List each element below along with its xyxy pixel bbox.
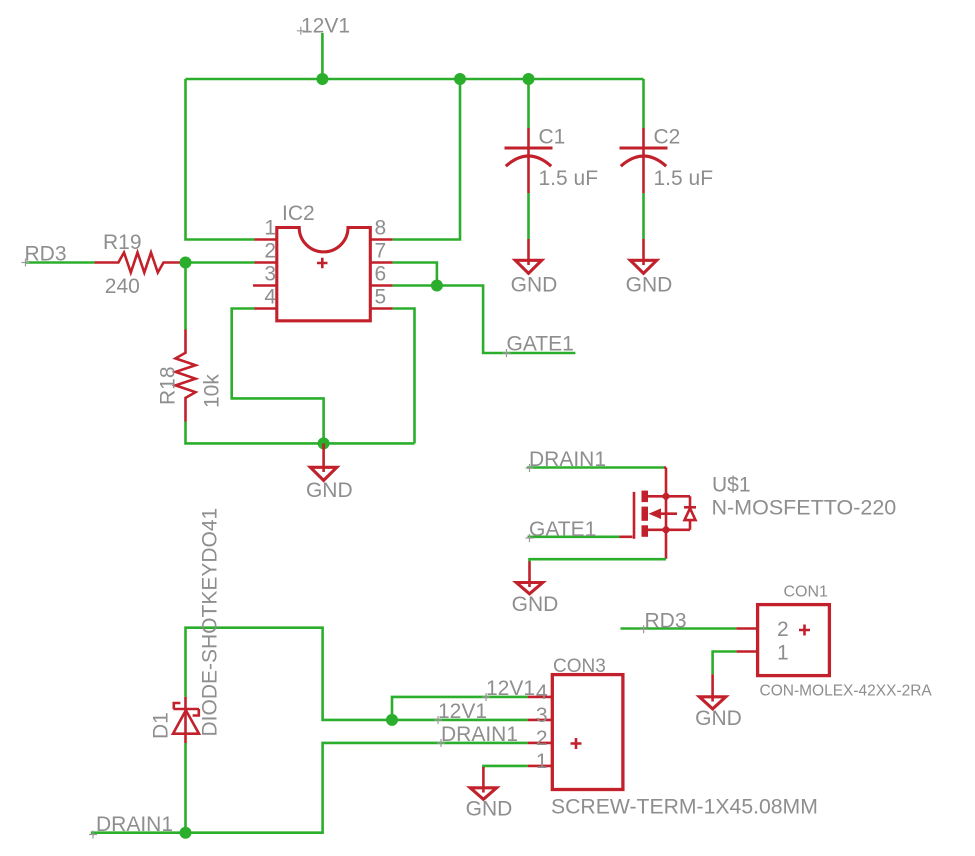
wire pin5 drop bbox=[393, 309, 415, 444]
resistor R19 bbox=[95, 253, 186, 273]
connector CON3 body bbox=[552, 675, 623, 790]
wire DRAIN1 to mosfet drain bbox=[527, 466, 664, 469]
IC2 pin 7 bbox=[370, 261, 392, 264]
wire pin7 down bbox=[393, 263, 437, 286]
body lead with arrow bbox=[658, 512, 677, 515]
wire bus to C1 bbox=[527, 79, 530, 128]
connector CON1 body bbox=[758, 605, 830, 676]
junction C1 at bus bbox=[523, 73, 535, 85]
svg-text:U$1: U$1 bbox=[712, 474, 751, 497]
op-amp IC2 body bbox=[277, 228, 371, 321]
svg-text:IC2: IC2 bbox=[282, 202, 315, 225]
channel bar body bbox=[642, 507, 649, 521]
wire bus to C2 bbox=[642, 79, 645, 128]
CON3 pin 3 bbox=[528, 719, 553, 722]
svg-text:DIODE-SHOTKEYDO41: DIODE-SHOTKEYDO41 bbox=[199, 508, 222, 737]
IC2 pin 3 bbox=[253, 284, 277, 287]
center vertical bbox=[665, 496, 668, 530]
wire D1 cathode to 12V1 net bbox=[186, 628, 528, 720]
wire junction down to R18 bbox=[184, 263, 187, 331]
wire R18 bottom to rail bbox=[186, 421, 415, 443]
wire CON1 pin1 to GND bbox=[713, 652, 737, 675]
mosfet drain pin bbox=[664, 468, 666, 497]
wire C1 to GND bbox=[527, 193, 530, 239]
svg-text:7: 7 bbox=[375, 240, 387, 263]
source line bbox=[648, 528, 690, 531]
CON1 pin 1 bbox=[736, 650, 757, 653]
svg-text:RD3: RD3 bbox=[645, 610, 687, 633]
svg-text:GND: GND bbox=[511, 274, 558, 297]
junction pin6/pin7 bbox=[431, 280, 443, 292]
CON3 pin 1 bbox=[528, 765, 553, 768]
channel bar drain bbox=[642, 491, 649, 503]
svg-text:GND: GND bbox=[306, 479, 353, 502]
junction D1/DRAIN1 bbox=[180, 827, 192, 839]
wire top 12V bus bbox=[186, 78, 644, 81]
ground C2 bbox=[642, 239, 645, 265]
body diode triangle bbox=[685, 508, 696, 520]
channel bar source bbox=[642, 525, 649, 537]
CON3 pin 2 bbox=[528, 742, 553, 745]
svg-text:SCREW-TERM-1X45.08MM: SCREW-TERM-1X45.08MM bbox=[551, 796, 818, 819]
transistor U$1 N-MOSFET TO-220 bbox=[620, 491, 697, 559]
svg-text:CON1: CON1 bbox=[784, 584, 829, 601]
gate lead bbox=[620, 535, 633, 538]
wire 12V1 vertical stub bbox=[321, 33, 324, 79]
svg-text:240: 240 bbox=[105, 275, 140, 298]
wire D1 anode down bbox=[184, 743, 187, 833]
junction bottom rail GND bbox=[318, 437, 330, 449]
body diode rails bbox=[689, 496, 692, 530]
junction pin8 riser at bus bbox=[454, 73, 466, 85]
svg-text:GATE1: GATE1 bbox=[529, 518, 596, 541]
svg-text:12V1: 12V1 bbox=[438, 700, 487, 723]
svg-text:8: 8 bbox=[375, 217, 387, 240]
wire mosfet source to GND bbox=[530, 559, 667, 562]
svg-text:1: 1 bbox=[264, 217, 276, 240]
svg-text:GATE1: GATE1 bbox=[507, 333, 574, 356]
resistor R18 bbox=[176, 330, 196, 422]
svg-text:5: 5 bbox=[375, 286, 387, 309]
svg-text:DRAIN1: DRAIN1 bbox=[96, 813, 173, 836]
CON1 pin 2 bbox=[736, 627, 757, 630]
wire RD3 to CON1 bbox=[621, 627, 737, 630]
CON3 plus mark bbox=[571, 738, 582, 749]
svg-text:CON-MOLEX-42XX-2RA: CON-MOLEX-42XX-2RA bbox=[760, 683, 933, 700]
wire GATE1 to mosfet gate bbox=[528, 535, 620, 538]
body diode bar bbox=[684, 506, 696, 509]
junction R19/R18/pin2 bbox=[180, 257, 192, 269]
svg-text:R18: R18 bbox=[157, 366, 180, 405]
IC2 pin 2 bbox=[255, 261, 277, 264]
wire RD3 to R19 bbox=[25, 261, 95, 264]
svg-text:1.5 uF: 1.5 uF bbox=[654, 167, 714, 190]
IC2 pin 6 bbox=[370, 284, 392, 287]
svg-text:N-MOSFETTO-220: N-MOSFETTO-220 bbox=[712, 496, 897, 520]
svg-text:GND: GND bbox=[626, 274, 673, 297]
wire CON3 pin1 to GND bbox=[483, 766, 527, 768]
ground CON3 bbox=[482, 767, 485, 793]
junction 12V1 at bus bbox=[316, 73, 328, 85]
IC2 pin 5 bbox=[370, 307, 392, 310]
IC2 pin 1 bbox=[255, 238, 277, 241]
svg-text:C2: C2 bbox=[654, 126, 681, 149]
svg-text:12V1: 12V1 bbox=[301, 15, 350, 38]
svg-text:GND: GND bbox=[695, 707, 742, 730]
CON3 pin 4 bbox=[528, 696, 553, 699]
source diamond bbox=[661, 525, 671, 535]
svg-text:4: 4 bbox=[536, 681, 548, 704]
svg-text:2: 2 bbox=[536, 727, 548, 750]
IC2 pin 8 bbox=[370, 238, 392, 241]
svg-text:2: 2 bbox=[264, 240, 276, 263]
svg-text:10k: 10k bbox=[201, 374, 224, 408]
svg-text:4: 4 bbox=[264, 286, 276, 309]
wire left riser to IC pin1 bbox=[186, 79, 255, 240]
wire pin8 up to bus bbox=[393, 79, 460, 240]
ground C1 bbox=[527, 239, 530, 265]
source pin bbox=[665, 530, 668, 559]
capacitor C1 bbox=[527, 128, 530, 193]
ground CON1 bbox=[711, 674, 714, 701]
svg-text:DRAIN1: DRAIN1 bbox=[441, 723, 518, 746]
wire junction to IC pin2 bbox=[186, 261, 255, 264]
wire C2 to GND bbox=[642, 193, 645, 239]
op-amp plus mark bbox=[317, 258, 328, 269]
svg-text:1: 1 bbox=[777, 642, 789, 665]
svg-text:2: 2 bbox=[777, 618, 789, 641]
svg-text:12V1: 12V1 bbox=[486, 677, 535, 700]
wire pin4 jog bbox=[392, 697, 528, 720]
junction 12V1 pins 3-4 bbox=[386, 714, 398, 726]
svg-text:1: 1 bbox=[536, 750, 548, 773]
svg-text:GND: GND bbox=[512, 593, 559, 616]
svg-text:CON3: CON3 bbox=[553, 656, 606, 677]
gate bar bbox=[633, 492, 636, 539]
wire DRAIN1 bottom bbox=[91, 743, 528, 833]
svg-text:DRAIN1: DRAIN1 bbox=[529, 448, 606, 471]
diode D1 schottky bbox=[173, 697, 199, 743]
ground below IC bbox=[322, 443, 325, 472]
svg-text:6: 6 bbox=[375, 263, 387, 286]
svg-text:3: 3 bbox=[264, 263, 276, 286]
svg-text:3: 3 bbox=[536, 704, 548, 727]
svg-text:1.5 uF: 1.5 uF bbox=[539, 167, 599, 190]
wire pin4 route bbox=[232, 309, 324, 444]
svg-text:RD3: RD3 bbox=[25, 243, 67, 266]
svg-text:GND: GND bbox=[466, 798, 513, 821]
CON1 plus mark bbox=[799, 625, 810, 636]
ground mosfet bbox=[528, 562, 531, 588]
drain line bbox=[648, 495, 690, 498]
svg-text:D1: D1 bbox=[150, 712, 173, 739]
drain diamond bbox=[661, 492, 671, 502]
svg-text:C1: C1 bbox=[539, 126, 566, 149]
IC2 pin 4 bbox=[255, 307, 277, 310]
wire pin6 GATE1 bbox=[393, 286, 576, 354]
svg-text:R19: R19 bbox=[103, 231, 142, 254]
capacitor C2 bbox=[642, 128, 645, 193]
